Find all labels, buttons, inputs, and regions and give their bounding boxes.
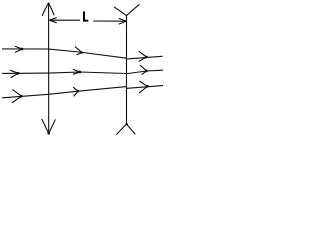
lens L2 (diverging lens, vertical line with forked ends): [114, 5, 139, 135]
dimension arrow right segment (points right at lens L2): [94, 19, 127, 25]
ray 1 exit arrowhead: [139, 51, 146, 61]
ray 3 incoming segment: [3, 90, 49, 103]
ray 1 middle arrowhead: [75, 47, 82, 55]
ray 2 exit arrowhead: [140, 65, 146, 74]
ray 3 middle segment (between lenses, slanting up): [49, 87, 127, 96]
ray 1 incoming arrowhead: [15, 46, 22, 52]
dimension arrow left segment (points left at lens L1): [50, 18, 80, 23]
ray 3 exit arrowhead: [139, 81, 147, 93]
ray 2 incoming arrowhead: [11, 70, 19, 77]
lens L1 (converging lens, double-headed vertical arrow): [42, 3, 55, 135]
ray 2 middle arrowhead: [73, 70, 80, 75]
ray 3 exit segment: [127, 81, 163, 93]
label L (bold letter drawn as strokes): [83, 11, 88, 21]
ray 1 exit segment: [127, 51, 163, 61]
lens L2 top fork: [114, 5, 139, 16]
lens L1 top arrowhead: [42, 3, 54, 15]
ray 2 exit segment: [127, 65, 163, 74]
lens L2 bottom fork: [125, 123, 127, 125]
ray 2 middle segment (between lenses, nearly level): [49, 70, 127, 75]
ray 1 incoming segment: [3, 46, 49, 52]
ray 1 middle segment (between lenses, slanting down): [49, 47, 127, 58]
ray 2 incoming segment: [3, 70, 49, 77]
lens L1 bottom arrowhead: [42, 119, 55, 133]
ray 3 incoming arrowhead: [12, 90, 21, 103]
ray 3 middle arrowhead: [74, 87, 79, 96]
